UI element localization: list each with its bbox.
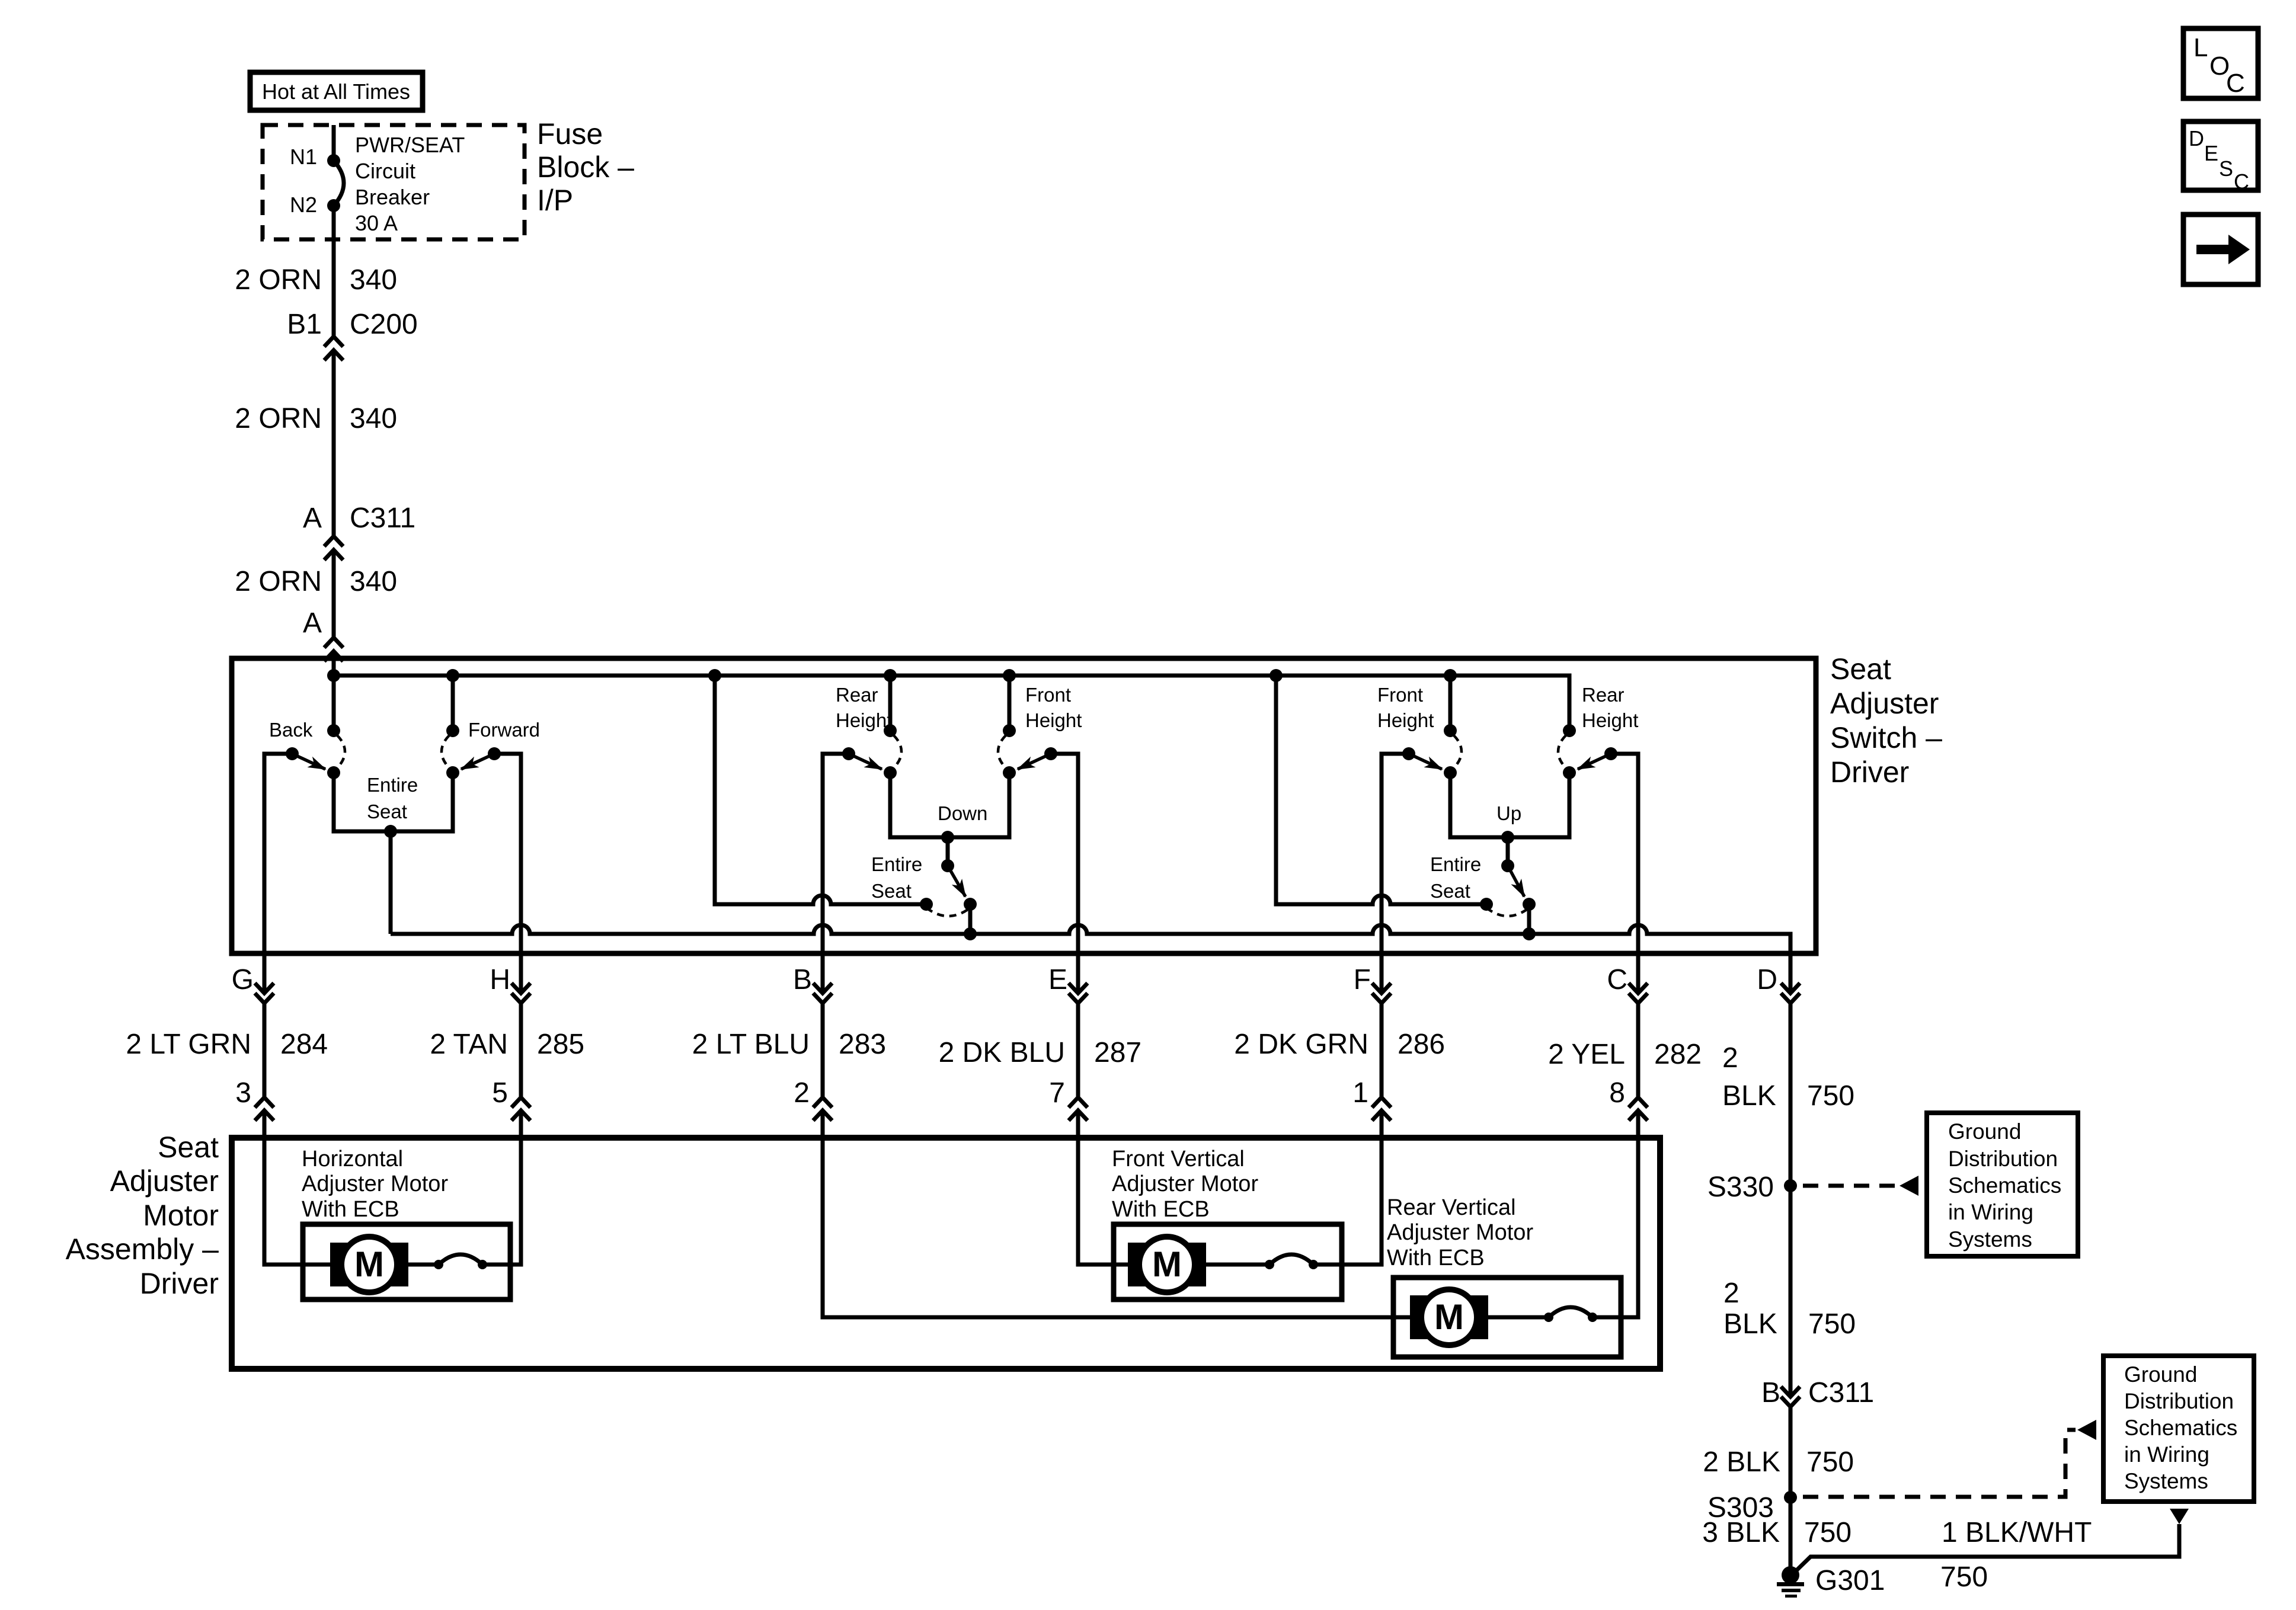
wire Down bus group2 — [890, 773, 1009, 837]
svg-text:F: F — [1354, 964, 1371, 996]
connector C311 pin B — [1781, 1387, 1800, 1407]
connector pin E — [1069, 983, 1088, 1003]
wire bus drop to Entire Seat feed group3 — [1276, 676, 1486, 904]
connector pin 8 — [1629, 1097, 1648, 1141]
wire Entire Seat output group3 — [1527, 904, 1531, 934]
svg-text:285: 285 — [537, 1029, 584, 1060]
wire B to motor M3 — [823, 1141, 1393, 1317]
svg-text:Horizontal: Horizontal — [302, 1147, 403, 1172]
wire pin E — [1051, 754, 1078, 993]
label Entire Seat group1 — [367, 774, 418, 822]
ground G301 — [1777, 1565, 1885, 1598]
Seat Adjuster Motor Assembly - Driver box — [232, 1138, 1660, 1369]
wire H to motor — [519, 1003, 523, 1097]
svg-text:Schematics: Schematics — [1948, 1173, 2061, 1198]
svg-text:750: 750 — [1804, 1517, 1851, 1548]
svg-text:Driver: Driver — [140, 1267, 219, 1300]
svg-text:I/P: I/P — [537, 184, 573, 217]
svg-text:E: E — [2204, 141, 2218, 165]
connector pin 3 — [255, 1097, 274, 1141]
svg-text:283: 283 — [839, 1029, 886, 1060]
node S330 — [1784, 1179, 1797, 1192]
svg-text:2: 2 — [1723, 1278, 1739, 1309]
svg-text:C311: C311 — [350, 502, 415, 534]
svg-text:Driver: Driver — [1830, 756, 1909, 789]
svg-text:M: M — [1434, 1297, 1464, 1337]
svg-text:Adjuster Motor: Adjuster Motor — [302, 1172, 448, 1196]
svg-text:C: C — [1607, 964, 1627, 996]
svg-text:C: C — [2226, 69, 2245, 98]
svg-text:2 YEL: 2 YEL — [1548, 1039, 1625, 1070]
svg-text:Distribution: Distribution — [2124, 1389, 2234, 1413]
wire pin H — [494, 754, 521, 993]
wire G to motor — [263, 1003, 267, 1097]
motor M2 Front Vertical Adjuster Motor With ECB — [1112, 1147, 1342, 1299]
svg-text:Height: Height — [836, 709, 892, 731]
label Fuse Block - I/P — [537, 117, 634, 217]
svg-text:8: 8 — [1609, 1077, 1625, 1109]
svg-text:Entire: Entire — [871, 853, 922, 875]
switch Forward — [442, 719, 540, 779]
wire Down center to Entire Seat switch group2 — [946, 837, 950, 866]
connector pin C — [1629, 983, 1648, 1003]
switch Rear Height group3 — [1558, 684, 1638, 779]
wire H to motor M1 — [510, 1141, 521, 1265]
svg-text:Up: Up — [1496, 802, 1521, 824]
wire 1 BLK/WHT 750 to ground box — [2170, 1509, 2189, 1524]
DESC reference box — [2183, 121, 2258, 194]
svg-text:BLK: BLK — [1723, 1308, 1777, 1340]
svg-text:N2: N2 — [290, 193, 317, 217]
svg-text:3 BLK: 3 BLK — [1702, 1517, 1780, 1548]
svg-text:2 DK GRN: 2 DK GRN — [1234, 1029, 1368, 1060]
svg-text:2 ORN: 2 ORN — [235, 403, 322, 434]
svg-text:L: L — [2193, 33, 2208, 62]
svg-text:Rear: Rear — [1582, 684, 1625, 706]
svg-text:B1: B1 — [287, 309, 322, 340]
svg-text:5: 5 — [492, 1077, 508, 1109]
wire feed into breaker — [332, 125, 336, 161]
wire into switch box — [332, 651, 336, 676]
connector pin F — [1372, 983, 1391, 1003]
node Entire Seat output group2 — [964, 927, 977, 940]
svg-text:2 LT GRN: 2 LT GRN — [126, 1029, 251, 1060]
Hot at All Times box — [250, 72, 423, 110]
svg-text:282: 282 — [1654, 1039, 1702, 1070]
connector C311 — [324, 536, 343, 560]
svg-text:2: 2 — [1722, 1042, 1738, 1074]
svg-text:Systems: Systems — [2124, 1469, 2208, 1493]
svg-text:C200: C200 — [350, 309, 418, 340]
svg-text:1 BLK/WHT: 1 BLK/WHT — [1942, 1517, 2092, 1548]
wire pin G — [264, 754, 292, 993]
svg-text:Ground: Ground — [1948, 1119, 2021, 1144]
Ground Distribution Schematics box 2 — [2103, 1356, 2254, 1502]
svg-text:Distribution: Distribution — [1948, 1147, 2058, 1171]
wire pin B — [823, 754, 849, 993]
label Seat Adjuster Switch - Driver — [1830, 652, 1942, 789]
svg-text:Adjuster Motor: Adjuster Motor — [1387, 1220, 1533, 1245]
svg-text:Front Vertical: Front Vertical — [1112, 1147, 1245, 1172]
svg-text:750: 750 — [1808, 1308, 1856, 1340]
switch Rear Height group2 — [836, 684, 901, 779]
svg-text:340: 340 — [350, 403, 397, 434]
svg-text:Height: Height — [1582, 709, 1638, 731]
connector pin 2 — [813, 1097, 832, 1141]
svg-text:Rear: Rear — [836, 684, 878, 706]
svg-text:H: H — [490, 964, 510, 996]
LOC reference box — [2183, 28, 2258, 98]
Seat Adjuster Switch - Driver box — [232, 658, 1816, 953]
wire F to motor M2 — [1342, 1141, 1382, 1265]
connector pin A — [324, 638, 343, 661]
wire common output bus to pin D — [391, 831, 1790, 993]
svg-text:PWR/SEAT: PWR/SEAT — [355, 133, 465, 157]
svg-text:Entire: Entire — [367, 774, 418, 796]
wire C200 to C311 — [332, 350, 336, 536]
wire B to motor — [821, 1003, 825, 1097]
wire C311 to S303 — [1789, 1407, 1793, 1575]
svg-text:N1: N1 — [290, 145, 317, 169]
connector pin 1 — [1372, 1097, 1391, 1141]
switch Entire Seat group2 — [871, 853, 977, 916]
node bus junctions — [327, 669, 1457, 682]
wire E to motor — [1076, 1003, 1080, 1097]
wire pin F — [1382, 754, 1409, 993]
svg-text:340: 340 — [350, 566, 397, 597]
svg-text:Seat: Seat — [871, 880, 912, 902]
svg-text:C311: C311 — [1808, 1377, 1874, 1409]
label 2 BLK 750 mid — [1723, 1278, 1856, 1340]
node N2 — [327, 199, 340, 212]
node Down center group2 — [941, 831, 954, 844]
node Entire Seat center group1 — [384, 825, 397, 838]
wire C to motor M3 — [1621, 1141, 1638, 1317]
svg-text:2 ORN: 2 ORN — [235, 566, 322, 597]
svg-text:B: B — [1761, 1377, 1780, 1409]
svg-text:Assembly –: Assembly – — [66, 1233, 219, 1266]
wire G to motor M1 — [264, 1141, 303, 1265]
wire F to motor — [1380, 1003, 1384, 1097]
svg-text:7: 7 — [1049, 1077, 1065, 1109]
svg-text:Forward: Forward — [468, 719, 540, 741]
wire supply bus — [334, 676, 1569, 731]
svg-text:A: A — [303, 502, 322, 534]
svg-text:S330: S330 — [1707, 1172, 1774, 1203]
connector pin 7 — [1069, 1097, 1088, 1141]
svg-text:Seat: Seat — [1430, 880, 1470, 902]
svg-text:With ECB: With ECB — [302, 1197, 399, 1222]
svg-text:3: 3 — [235, 1077, 251, 1109]
node N1 — [327, 154, 340, 167]
svg-text:Seat: Seat — [158, 1131, 219, 1164]
node Up center group3 — [1501, 831, 1514, 844]
svg-text:A: A — [303, 607, 322, 639]
svg-text:Height: Height — [1025, 709, 1082, 731]
svg-text:Adjuster: Adjuster — [110, 1164, 219, 1198]
connector pin H — [511, 983, 530, 1003]
svg-text:With ECB: With ECB — [1387, 1246, 1485, 1270]
node S303 — [1784, 1491, 1797, 1504]
wire Up center to Entire Seat switch group3 — [1506, 837, 1510, 866]
wire C311 to switch connector — [332, 550, 336, 638]
switch Entire Seat group3 — [1430, 853, 1536, 916]
wire pin C — [1611, 754, 1638, 993]
svg-text:Motor: Motor — [143, 1199, 219, 1232]
wire E to motor M2 — [1078, 1141, 1114, 1265]
svg-text:1: 1 — [1352, 1077, 1368, 1109]
motor M3 Rear Vertical Adjuster Motor With ECB — [1387, 1195, 1621, 1357]
wire Entire Seat bus group1 — [334, 773, 453, 831]
svg-text:D: D — [1757, 964, 1777, 996]
svg-text:M: M — [1152, 1244, 1182, 1284]
wire dashed S330 reference — [1803, 1184, 1898, 1188]
wire Up bus group3 — [1450, 773, 1569, 837]
connector pin D — [1781, 983, 1800, 1003]
svg-text:2 TAN: 2 TAN — [430, 1029, 508, 1060]
fuse block dashed box — [263, 125, 525, 239]
svg-text:BLK: BLK — [1722, 1080, 1776, 1112]
svg-text:Rear Vertical: Rear Vertical — [1387, 1195, 1516, 1220]
svg-text:Circuit: Circuit — [355, 159, 415, 183]
svg-text:D: D — [2189, 126, 2204, 151]
forward arrow box — [2183, 215, 2258, 284]
svg-text:Hot at All Times: Hot at All Times — [262, 79, 410, 104]
svg-text:Switch –: Switch – — [1830, 721, 1942, 754]
connector pin G — [255, 983, 274, 1003]
svg-text:G: G — [232, 964, 254, 996]
svg-text:30 A: 30 A — [355, 211, 398, 235]
svg-text:Block –: Block – — [537, 151, 634, 184]
svg-text:2 ORN: 2 ORN — [235, 264, 322, 296]
svg-text:2 BLK: 2 BLK — [1703, 1446, 1780, 1478]
svg-text:Seat: Seat — [367, 801, 407, 822]
svg-text:Front: Front — [1025, 684, 1071, 706]
svg-text:Down: Down — [938, 802, 987, 824]
svg-text:M: M — [354, 1244, 384, 1284]
wire C to motor — [1636, 1003, 1641, 1097]
svg-text:With ECB: With ECB — [1112, 1197, 1210, 1222]
svg-text:286: 286 — [1398, 1029, 1445, 1060]
svg-text:Breaker: Breaker — [355, 185, 430, 209]
svg-text:Systems: Systems — [1948, 1227, 2032, 1251]
svg-text:in Wiring: in Wiring — [1948, 1200, 2033, 1224]
svg-text:2 LT BLU: 2 LT BLU — [692, 1029, 810, 1060]
svg-text:Front: Front — [1377, 684, 1423, 706]
svg-text:E: E — [1048, 964, 1067, 996]
svg-text:G301: G301 — [1815, 1565, 1885, 1596]
label Seat Adjuster Motor Assembly - Driver — [66, 1131, 219, 1300]
svg-text:Entire: Entire — [1430, 853, 1481, 875]
svg-text:Height: Height — [1377, 709, 1434, 731]
switch Front Height group3 — [1377, 684, 1462, 779]
svg-text:Seat: Seat — [1830, 652, 1891, 686]
wire bus drop to Entire Seat feed group2 — [715, 676, 926, 904]
motor M1 Horizontal Adjuster Motor With ECB — [302, 1147, 510, 1299]
svg-text:B: B — [793, 964, 812, 996]
svg-text:in Wiring: in Wiring — [2124, 1442, 2209, 1467]
switch Front Height group2 — [998, 684, 1082, 779]
wire dashed S303 reference — [1803, 1430, 2076, 1497]
wire Entire Seat output group2 — [968, 904, 973, 934]
switch Back — [269, 719, 345, 779]
svg-text:750: 750 — [1940, 1561, 1988, 1593]
svg-text:750: 750 — [1807, 1080, 1854, 1112]
wire breaker output — [332, 206, 336, 337]
svg-text:340: 340 — [350, 264, 397, 296]
svg-text:S: S — [2219, 156, 2233, 181]
node Entire Seat output group3 — [1523, 927, 1536, 940]
svg-text:284: 284 — [280, 1029, 328, 1060]
svg-text:Adjuster: Adjuster — [1830, 687, 1939, 720]
circuit breaker PWR/SEAT 30A — [334, 161, 344, 206]
connector pin 5 — [511, 1097, 530, 1141]
svg-text:2 DK BLU: 2 DK BLU — [939, 1037, 1065, 1068]
svg-text:Schematics: Schematics — [2124, 1416, 2237, 1440]
svg-text:Ground: Ground — [2124, 1362, 2197, 1387]
svg-text:Back: Back — [269, 719, 313, 741]
wire bus drops to switch contacts — [334, 676, 1450, 731]
connector C200 — [324, 337, 343, 360]
svg-text:750: 750 — [1806, 1446, 1854, 1478]
connector pin B — [813, 983, 832, 1003]
svg-text:2: 2 — [794, 1077, 810, 1109]
svg-text:Adjuster Motor: Adjuster Motor — [1112, 1172, 1258, 1196]
wire D to S330 — [1789, 1003, 1793, 1395]
label 2 BLK 750 upper — [1722, 1042, 1854, 1112]
svg-text:287: 287 — [1094, 1037, 1141, 1068]
svg-text:C: C — [2234, 169, 2249, 194]
svg-text:Fuse: Fuse — [537, 117, 603, 151]
Ground Distribution Schematics box 1 — [1927, 1113, 2078, 1256]
